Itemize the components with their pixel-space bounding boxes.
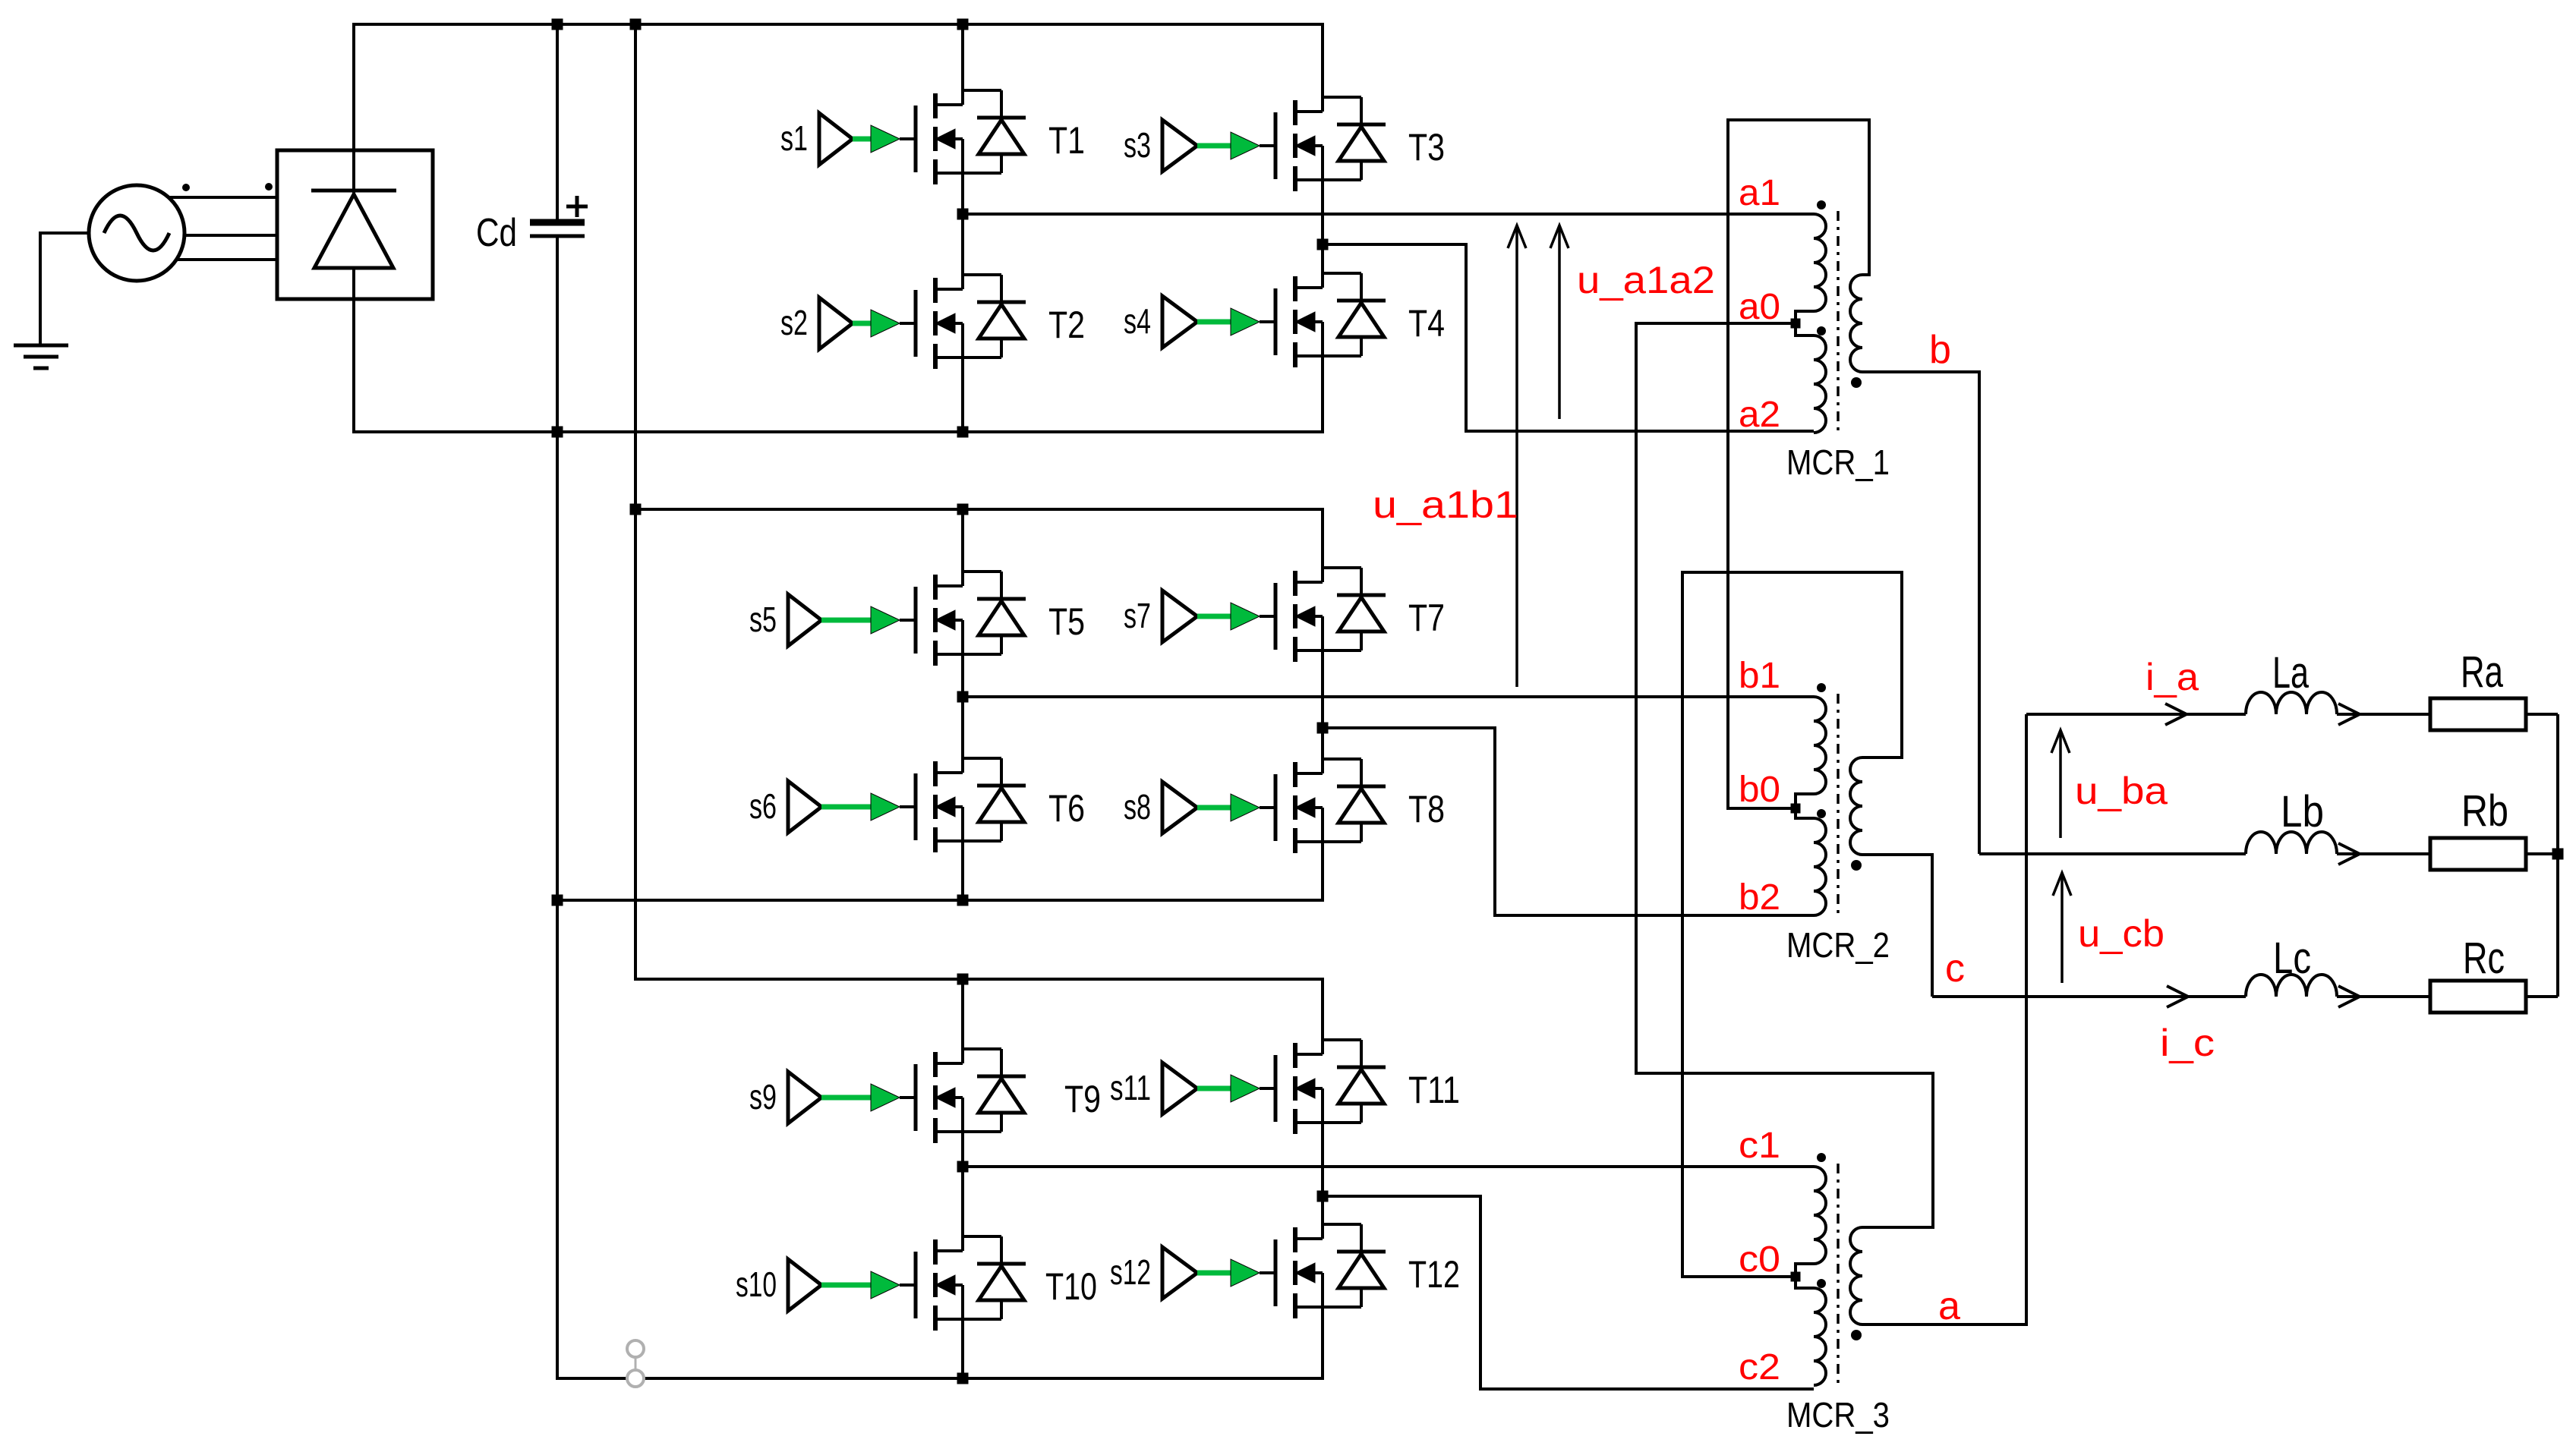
gate driver s12 bbox=[1110, 1247, 1197, 1299]
svg-text:i_a: i_a bbox=[2146, 656, 2199, 698]
wire Lb to Rb bbox=[2337, 852, 2430, 855]
phase a wire to load bbox=[2026, 713, 2246, 716]
ground bbox=[14, 345, 68, 368]
svg-text:T12: T12 bbox=[1408, 1253, 1460, 1296]
green gate signal arrow for s10 bbox=[821, 1271, 916, 1299]
junction dots on bridge2 rails bbox=[552, 504, 969, 906]
wire AC phase 2 bbox=[184, 234, 277, 237]
transistor T12 (MOSFET) bbox=[1275, 1227, 1460, 1318]
svg-text:s4: s4 bbox=[1124, 301, 1151, 341]
resistor Rb bbox=[2430, 838, 2526, 870]
node dot near rectifier bbox=[265, 183, 273, 191]
antiparallel diode of T7 bbox=[1323, 568, 1386, 650]
antiparallel diode of T2 bbox=[963, 275, 1026, 357]
left leg of bridge 3 bbox=[961, 979, 964, 1378]
polarity dot b1 of MCR_2 bbox=[1817, 683, 1826, 692]
label u_a1b1 bbox=[1373, 483, 1518, 526]
antiparallel diode of T1 bbox=[963, 90, 1026, 173]
polarity dot b0 of MCR_2 bbox=[1817, 809, 1826, 818]
svg-text:T3: T3 bbox=[1408, 126, 1445, 169]
svg-text:a2: a2 bbox=[1739, 395, 1780, 435]
svg-text:u_cb: u_cb bbox=[2078, 912, 2165, 955]
svg-text:c: c bbox=[1945, 946, 1965, 991]
polarity dot c1 of MCR_3 bbox=[1817, 1153, 1826, 1162]
svg-text:s9: s9 bbox=[749, 1077, 777, 1117]
wire MCR_1 secondary bottom to phase b bbox=[1862, 372, 1979, 854]
svg-text:T9: T9 bbox=[1064, 1078, 1101, 1120]
svg-text:s10: s10 bbox=[736, 1265, 777, 1304]
label Lb bbox=[2281, 787, 2324, 836]
gate driver s2 bbox=[780, 298, 853, 349]
a2 primary lower winding of MCR_1 bbox=[1814, 335, 1826, 433]
green gate signal arrow for s11 bbox=[1197, 1075, 1275, 1102]
center tap a0 elbow of MCR_1 bbox=[1796, 311, 1814, 335]
voltage arrow u_a1b1 bbox=[1508, 225, 1526, 687]
label Rc bbox=[2463, 934, 2505, 983]
arrow after Lb bbox=[2338, 843, 2360, 865]
green gate signal arrow for s3 bbox=[1197, 132, 1275, 159]
node c2 wire (bridge3 right midpoint to MCR_3) bbox=[1317, 1191, 1815, 1390]
gate driver s5 bbox=[749, 594, 821, 646]
polarity dot c0 of MCR_3 bbox=[1817, 1279, 1826, 1288]
wire Rc to right bus bbox=[2526, 995, 2558, 998]
svg-text:s1: s1 bbox=[780, 118, 808, 158]
node a1 wire (bridge1 left midpoint to MCR_1) bbox=[957, 209, 1815, 220]
green gate signal arrow for s1 bbox=[853, 125, 916, 153]
terminal label b1 bbox=[1739, 656, 1780, 696]
wire La to Ra bbox=[2337, 713, 2430, 716]
antiparallel diode of T10 bbox=[963, 1236, 1026, 1319]
polarity dot a1 of MCR_1 bbox=[1817, 200, 1826, 209]
resistor Rc bbox=[2430, 981, 2526, 1013]
c1 primary upper winding of MCR_3 bbox=[1814, 1167, 1826, 1264]
junction dots on bridge3 rails bbox=[957, 974, 969, 1384]
wire MCR_3 secondary bottom to phase a bbox=[1862, 714, 2026, 1324]
svg-text:u_a1b1: u_a1b1 bbox=[1373, 483, 1518, 526]
svg-text:MCR_2: MCR_2 bbox=[1786, 925, 1890, 965]
antiparallel diode of T8 bbox=[1323, 759, 1386, 842]
svg-text:Rc: Rc bbox=[2463, 934, 2505, 983]
green gate signal arrow for s2 bbox=[853, 310, 916, 337]
gate driver s7 bbox=[1124, 591, 1197, 642]
polarity dot secondary of MCR_1 bbox=[1851, 377, 1862, 388]
phase b wire to load bbox=[1979, 852, 2246, 855]
svg-text:T10: T10 bbox=[1045, 1265, 1097, 1308]
secondary winding of MCR_2 bbox=[1850, 757, 1862, 855]
svg-text:a: a bbox=[1938, 1284, 1960, 1328]
gate driver s11 bbox=[1110, 1063, 1197, 1114]
svg-text:c0: c0 bbox=[1739, 1239, 1780, 1280]
svg-text:MCR_1: MCR_1 bbox=[1786, 443, 1890, 482]
svg-text:s8: s8 bbox=[1124, 787, 1151, 827]
svg-text:s11: s11 bbox=[1110, 1068, 1151, 1107]
svg-text:b2: b2 bbox=[1739, 877, 1780, 918]
positive rail of bridge 3 bbox=[634, 978, 1324, 981]
terminal label a1 bbox=[1739, 173, 1780, 213]
voltage arrow u_a1a2 bbox=[1550, 225, 1569, 419]
right leg of bridge 3 bbox=[1321, 979, 1324, 1378]
wire AC phase 3 bbox=[175, 258, 277, 261]
svg-text:i_c: i_c bbox=[2160, 1022, 2215, 1064]
svg-text:T4: T4 bbox=[1408, 302, 1445, 345]
terminal label c1 bbox=[1739, 1126, 1780, 1166]
label Rb bbox=[2461, 786, 2508, 836]
transistor T6 (MOSFET) bbox=[916, 761, 1085, 852]
svg-text:s2: s2 bbox=[780, 303, 808, 342]
svg-text:b: b bbox=[1929, 328, 1951, 372]
capacitor bus vertical bbox=[556, 24, 559, 1380]
label a bbox=[1938, 1284, 1960, 1328]
svg-text:T6: T6 bbox=[1048, 787, 1085, 830]
svg-text:c2: c2 bbox=[1739, 1347, 1780, 1387]
label i_c bbox=[2160, 1022, 2215, 1064]
wire MCR_3 secondary top to node a0 bbox=[1636, 319, 1933, 1228]
label u_cb bbox=[2078, 912, 2165, 955]
svg-text:s12: s12 bbox=[1110, 1252, 1151, 1292]
core of MCR_3 bbox=[1837, 1164, 1840, 1388]
transformer label MCR_3 bbox=[1786, 1395, 1890, 1435]
secondary winding of MCR_1 bbox=[1850, 275, 1862, 372]
a1 primary upper winding of MCR_1 bbox=[1814, 214, 1826, 311]
antiparallel diode of T4 bbox=[1323, 273, 1386, 356]
svg-text:Rb: Rb bbox=[2461, 786, 2508, 836]
positive rail of bridge 1 bbox=[352, 23, 1324, 26]
terminal label b2 bbox=[1739, 877, 1780, 918]
AC source V1 bbox=[89, 185, 184, 281]
svg-text:T2: T2 bbox=[1048, 304, 1085, 346]
node a2 wire (bridge1 right midpoint to MCR_1) bbox=[1317, 239, 1815, 432]
phase c wire to load bbox=[1932, 995, 2246, 998]
transformer label MCR_2 bbox=[1786, 925, 1890, 965]
green gate signal arrow for s6 bbox=[821, 793, 916, 820]
current arrow i_c bbox=[2167, 986, 2188, 1007]
green gate signal arrow for s12 bbox=[1197, 1259, 1275, 1287]
transistor T11 (MOSFET) bbox=[1275, 1043, 1460, 1134]
node b2 wire (bridge2 right midpoint to MCR_2) bbox=[1317, 723, 1815, 916]
svg-text:T5: T5 bbox=[1048, 600, 1085, 643]
label c bbox=[1945, 946, 1965, 991]
svg-text:Ra: Ra bbox=[2461, 647, 2504, 697]
rectifier diode symbol bbox=[311, 150, 396, 299]
transistor T5 (MOSFET) bbox=[916, 575, 1085, 666]
svg-text:s3: s3 bbox=[1124, 125, 1151, 165]
resistor Ra bbox=[2430, 698, 2526, 730]
svg-text:b0: b0 bbox=[1739, 770, 1780, 810]
b1 primary upper winding of MCR_2 bbox=[1814, 697, 1826, 794]
positive bus to lower bridges bbox=[634, 24, 637, 981]
arrow after Lc bbox=[2338, 986, 2360, 1007]
transistor T4 (MOSFET) bbox=[1275, 276, 1445, 367]
svg-text:a0: a0 bbox=[1739, 287, 1780, 327]
transistor T3 (MOSFET) bbox=[1275, 100, 1445, 191]
label i_a bbox=[2146, 656, 2199, 698]
svg-text:s6: s6 bbox=[749, 786, 777, 826]
wire MCR_2 secondary top to node c0 bbox=[1682, 572, 1902, 1282]
voltage arrow u_cb bbox=[2053, 873, 2071, 983]
transistor T1 (MOSFET) bbox=[916, 93, 1085, 184]
antiparallel diode of T5 bbox=[963, 572, 1026, 654]
node b1 wire (bridge2 left midpoint to MCR_2) bbox=[957, 691, 1815, 703]
antiparallel diode of T12 bbox=[1323, 1224, 1386, 1307]
label b bbox=[1929, 328, 1951, 372]
rectifier block bbox=[277, 150, 433, 299]
terminal label a0 bbox=[1739, 287, 1780, 327]
antiparallel diode of T6 bbox=[963, 758, 1026, 841]
svg-text:c1: c1 bbox=[1739, 1126, 1780, 1166]
label u_a1a2 bbox=[1577, 259, 1715, 301]
arrow after La bbox=[2338, 704, 2360, 725]
transformer label MCR_1 bbox=[1786, 443, 1890, 482]
gate driver s3 bbox=[1124, 120, 1197, 172]
green gate signal arrow for s7 bbox=[1197, 603, 1275, 630]
gate driver s4 bbox=[1124, 296, 1197, 348]
svg-text:T1: T1 bbox=[1048, 119, 1085, 162]
svg-text:u_ba: u_ba bbox=[2075, 770, 2168, 812]
voltage arrow u_ba bbox=[2051, 730, 2070, 838]
left leg of bridge 1 bbox=[961, 24, 964, 432]
wire AC to ground bus bbox=[40, 232, 89, 345]
junction dots on bridge1 negative rail bbox=[552, 427, 969, 438]
svg-text:T7: T7 bbox=[1408, 597, 1445, 639]
terminal label b0 bbox=[1739, 770, 1780, 810]
transistor T2 (MOSFET) bbox=[916, 278, 1085, 369]
svg-text:s5: s5 bbox=[749, 600, 777, 639]
node c1 wire (bridge3 left midpoint to MCR_3) bbox=[957, 1161, 1815, 1173]
negative rail of bridge 1 bbox=[352, 430, 1324, 433]
terminal label c0 bbox=[1739, 1239, 1780, 1280]
svg-text:T8: T8 bbox=[1408, 788, 1445, 830]
core of MCR_1 bbox=[1837, 211, 1840, 436]
polarity dot secondary of MCR_3 bbox=[1851, 1330, 1862, 1340]
label La bbox=[2272, 648, 2310, 698]
polarity dot secondary of MCR_2 bbox=[1851, 860, 1862, 871]
right leg of bridge 1 bbox=[1321, 24, 1324, 432]
svg-text:La: La bbox=[2272, 648, 2310, 698]
secondary winding of MCR_3 bbox=[1850, 1227, 1862, 1324]
green gate signal arrow for s5 bbox=[821, 606, 916, 634]
svg-text:Lb: Lb bbox=[2281, 787, 2324, 836]
gate driver s9 bbox=[749, 1072, 821, 1123]
transistor T10 (MOSFET) bbox=[916, 1239, 1097, 1331]
green gate signal arrow for s9 bbox=[821, 1084, 916, 1111]
svg-text:u_a1a2: u_a1a2 bbox=[1577, 259, 1715, 301]
terminal label a2 bbox=[1739, 395, 1780, 435]
transistor T8 (MOSFET) bbox=[1275, 762, 1445, 853]
current arrow i_a bbox=[2165, 704, 2187, 725]
center tap b0 elbow of MCR_2 bbox=[1796, 794, 1814, 818]
green gate signal arrow for s8 bbox=[1197, 794, 1275, 821]
label Ra bbox=[2461, 647, 2504, 697]
gate driver s10 bbox=[736, 1259, 821, 1311]
svg-text:Lc: Lc bbox=[2273, 934, 2311, 983]
antiparallel diode of T9 bbox=[963, 1049, 1026, 1132]
negative rail of bridge 3 bbox=[556, 1377, 1324, 1380]
label u_ba bbox=[2075, 770, 2168, 812]
capacitor Cd bbox=[476, 196, 588, 255]
gate driver s8 bbox=[1124, 782, 1197, 833]
center tap c0 elbow of MCR_3 bbox=[1796, 1264, 1814, 1288]
green gate signal arrow for s4 bbox=[1197, 308, 1275, 335]
svg-text:Cd: Cd bbox=[476, 211, 517, 255]
svg-text:MCR_3: MCR_3 bbox=[1786, 1395, 1890, 1435]
node dot near source bbox=[182, 184, 190, 191]
core of MCR_2 bbox=[1837, 694, 1840, 918]
inductor La bbox=[2246, 692, 2337, 714]
wire Ra to right bus bbox=[2526, 713, 2558, 716]
svg-text:a1: a1 bbox=[1739, 173, 1780, 213]
wire rectifier to positive rail bbox=[352, 23, 355, 150]
wire AC phase 1 bbox=[169, 196, 277, 199]
wire Lc to Rc bbox=[2337, 995, 2430, 998]
junction dots on positive rail bbox=[552, 19, 969, 30]
gate driver s6 bbox=[749, 781, 821, 833]
negative rail of bridge 2 bbox=[556, 899, 1324, 902]
right leg of bridge 2 bbox=[1321, 509, 1324, 900]
wire MCR_2 secondary bottom to phase c bbox=[1862, 855, 1932, 997]
positive rail of bridge 2 bbox=[635, 508, 1324, 511]
b2 primary lower winding of MCR_2 bbox=[1814, 818, 1826, 915]
svg-text:s7: s7 bbox=[1124, 596, 1151, 635]
label Lc bbox=[2273, 934, 2311, 983]
wire rectifier to negative rail bbox=[352, 299, 355, 432]
antiparallel diode of T11 bbox=[1323, 1040, 1386, 1123]
inductor Lb bbox=[2246, 832, 2337, 854]
inductor Lc bbox=[2246, 975, 2337, 997]
unconnected port marker bbox=[627, 1340, 644, 1387]
svg-text:T11: T11 bbox=[1408, 1069, 1460, 1111]
left leg of bridge 2 bbox=[961, 509, 964, 900]
transistor T9 (MOSFET) bbox=[916, 1052, 1101, 1143]
svg-text:b1: b1 bbox=[1739, 656, 1780, 696]
gate driver s1 bbox=[780, 113, 853, 165]
right bus joining loads bbox=[2552, 714, 2564, 997]
wire MCR_1 secondary top to node b0 bbox=[1728, 120, 1869, 814]
antiparallel diode of T3 bbox=[1323, 97, 1386, 180]
terminal label c2 bbox=[1739, 1347, 1780, 1387]
wire Rb to right bus bbox=[2526, 852, 2558, 855]
transistor T7 (MOSFET) bbox=[1275, 571, 1445, 662]
polarity dot a0 of MCR_1 bbox=[1817, 326, 1826, 335]
c2 primary lower winding of MCR_3 bbox=[1814, 1288, 1826, 1385]
